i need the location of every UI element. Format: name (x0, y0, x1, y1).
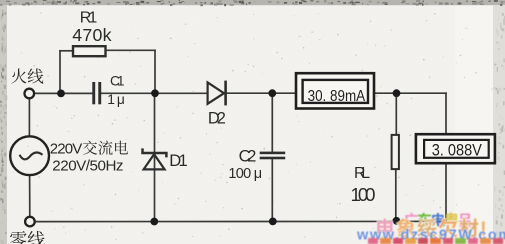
svg-text:30. 89mA: 30. 89mA (308, 88, 366, 105)
svg-text:220V/50Hz: 220V/50Hz (52, 158, 123, 175)
svg-text:D1: D1 (169, 151, 187, 170)
svg-text:100 μ: 100 μ (228, 166, 262, 182)
svg-text:470k: 470k (72, 25, 111, 45)
svg-text:D2: D2 (208, 109, 226, 127)
svg-text:RL: RL (354, 165, 370, 182)
svg-text:220V: 220V (50, 141, 83, 158)
svg-text:1 μ: 1 μ (107, 92, 125, 107)
svg-text:100: 100 (351, 184, 376, 205)
svg-text:R1: R1 (80, 9, 98, 26)
svg-text:C1: C1 (110, 74, 125, 89)
svg-text:C2: C2 (239, 147, 257, 166)
svg-text:3. 088V: 3. 088V (432, 141, 482, 159)
